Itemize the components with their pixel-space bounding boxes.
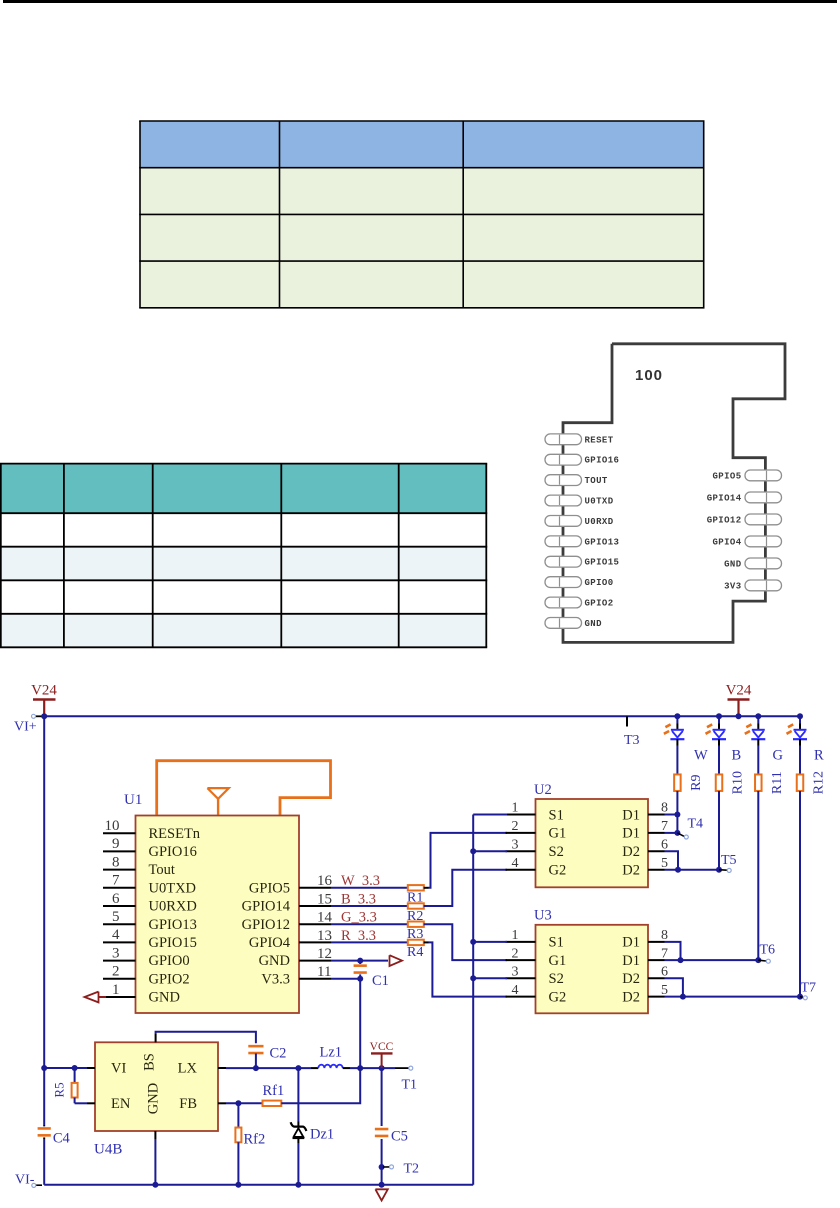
wire R2 to U2 pin4: [424, 870, 507, 906]
node VI+ test point: [35, 715, 42, 717]
wire U3 pin7 to G chain / T6: [665, 959, 759, 961]
svg-text:T4: T4: [688, 817, 704, 832]
wire U1 pin12 to no-connect arrow: [331, 960, 388, 962]
svg-text:5: 5: [661, 856, 668, 871]
svg-text:5: 5: [112, 909, 120, 925]
U3 pin 3 / pin 6: [506, 977, 536, 979]
svg-text:TOUT: TOUT: [585, 476, 608, 486]
U1 pin 10 RESETn: [103, 832, 136, 834]
U3 pin 4 / pin 5: [506, 996, 536, 998]
svg-text:T1: T1: [402, 1078, 418, 1093]
wire R4 to U3 pin4: [424, 941, 429, 943]
svg-text:Tout: Tout: [149, 862, 175, 878]
U2 pin 2 / pin 7: [506, 832, 536, 834]
wire U3 pin3: [473, 977, 507, 979]
svg-text:GPIO0: GPIO0: [149, 953, 190, 969]
wire R10 bottom: [718, 791, 720, 870]
module right pin 3V3: [745, 580, 782, 591]
chip U1 (ESP8266): [136, 816, 300, 1014]
svg-text:GPIO13: GPIO13: [585, 537, 620, 547]
U3 pin 1 / pin 8: [506, 941, 536, 943]
wire LED cathode: [676, 739, 678, 745]
svg-text:VCC: VCC: [370, 1041, 394, 1053]
svg-text:3: 3: [512, 965, 519, 980]
svg-text:U3: U3: [534, 908, 552, 924]
resistor R10: [716, 774, 723, 791]
resistor R5: [74, 1068, 76, 1083]
svg-text:12: 12: [317, 946, 332, 962]
module left pin U0TXD: [545, 495, 582, 506]
svg-text:13: 13: [317, 928, 332, 944]
wire LED chain W: [676, 716, 678, 723]
junction pin12: [357, 958, 363, 964]
wire R9 bottom: [676, 791, 678, 833]
U4B pin EN: [87, 1102, 95, 1104]
svg-text:R9: R9: [689, 775, 704, 791]
svg-text:4: 4: [112, 927, 120, 943]
U1 pin 1 GND power port arrow: [106, 996, 136, 998]
U4B pin LX: [218, 1067, 226, 1069]
U2 pin 4 / pin 5: [506, 869, 536, 871]
svg-text:D2: D2: [622, 971, 640, 987]
svg-text:C1: C1: [372, 973, 389, 989]
svg-text:D2: D2: [622, 863, 640, 879]
svg-text:3: 3: [112, 945, 120, 961]
svg-text:GND: GND: [724, 559, 742, 569]
resistor R4: [408, 940, 424, 945]
svg-text:U1: U1: [124, 792, 142, 808]
svg-text:EN: EN: [111, 1096, 131, 1112]
chip U2 (dual mosfet): [536, 799, 649, 887]
svg-text:S2: S2: [549, 844, 564, 860]
capacitor C4: [43, 1125, 45, 1126]
svg-text:RESET: RESET: [585, 435, 614, 445]
svg-text:2: 2: [512, 819, 519, 834]
svg-text:G_3.3: G_3.3: [341, 910, 377, 926]
svg-text:U0RXD: U0RXD: [585, 517, 614, 527]
junction C2/LX: [253, 1065, 259, 1071]
svg-text:10: 10: [105, 818, 120, 834]
wire FB row: [226, 1102, 263, 1104]
svg-text:GPIO5: GPIO5: [712, 471, 741, 481]
svg-text:D1: D1: [622, 826, 640, 842]
svg-text:GPIO16: GPIO16: [585, 456, 620, 466]
svg-text:T5: T5: [721, 853, 737, 868]
svg-text:T2: T2: [404, 1162, 420, 1177]
wire U2 pin8 to W chain: [665, 814, 678, 816]
page top rule: [3, 0, 837, 3]
wire C1 down to LX node: [359, 979, 361, 1068]
svg-text:2: 2: [512, 946, 519, 961]
svg-text:11: 11: [317, 964, 331, 980]
svg-text:D1: D1: [622, 953, 640, 969]
capacitor C2: [248, 1045, 263, 1048]
U2 pin 1 / pin 8: [506, 814, 536, 816]
wire U3 pin6 to pin5 node: [665, 978, 683, 996]
wire U1 pin11 V3.3: [331, 978, 360, 980]
svg-text:GPIO15: GPIO15: [585, 558, 620, 568]
svg-text:U4B: U4B: [94, 1142, 122, 1158]
wire pin13 to R4: [331, 941, 408, 943]
svg-text:LX: LX: [178, 1061, 198, 1077]
svg-text:GND: GND: [149, 990, 180, 1006]
svg-text:D2: D2: [622, 844, 640, 860]
svg-text:T6: T6: [760, 943, 776, 958]
svg-text:Rf2: Rf2: [244, 1132, 266, 1148]
svg-text:GND: GND: [259, 953, 290, 969]
LED D-B: [713, 729, 726, 731]
svg-text:Rf1: Rf1: [263, 1083, 285, 1099]
svg-text:GND: GND: [146, 1083, 162, 1114]
table 1 (3x3, blue header): [140, 121, 704, 168]
svg-text:1: 1: [512, 801, 519, 816]
svg-text:RESETn: RESETn: [149, 826, 201, 842]
table 2 (5 cols, teal header): [1, 464, 487, 514]
svg-text:C5: C5: [391, 1129, 408, 1145]
svg-text:R: R: [814, 748, 824, 764]
svg-text:6: 6: [112, 891, 120, 907]
wire LED cathode: [718, 739, 720, 745]
svg-text:S1: S1: [549, 935, 564, 951]
svg-text:GPIO13: GPIO13: [149, 917, 197, 933]
svg-text:V24: V24: [31, 683, 57, 699]
LED D-G: [752, 729, 765, 731]
resistor Rf2: [237, 1103, 239, 1127]
svg-text:U0TXD: U0TXD: [149, 880, 197, 896]
U4B pin VI: [87, 1067, 95, 1069]
svg-text:V3.3: V3.3: [261, 971, 290, 987]
U4B pin GND: [154, 1131, 156, 1139]
svg-text:G1: G1: [549, 826, 567, 842]
svg-text:U0RXD: U0RXD: [149, 899, 197, 915]
resistor R12: [797, 774, 804, 791]
svg-text:GPIO2: GPIO2: [149, 971, 190, 987]
svg-text:15: 15: [317, 891, 332, 907]
test point T1: [395, 1067, 409, 1069]
svg-text:R 3.3: R 3.3: [341, 928, 376, 944]
U1 pin 9 GPIO16: [103, 850, 136, 852]
wire U2 pin5 / T5: [665, 869, 720, 871]
svg-text:4: 4: [512, 983, 519, 998]
junction VI+: [41, 713, 47, 719]
svg-text:GND: GND: [585, 619, 603, 629]
junction pin11: [357, 976, 363, 982]
wire U2 pin7 / T4: [665, 832, 678, 834]
svg-text:8: 8: [661, 801, 668, 816]
svg-text:VI-: VI-: [15, 1173, 35, 1188]
U3 pin 2 / pin 7: [506, 959, 536, 961]
wire LED cathode: [757, 739, 759, 745]
wire LX row: [226, 1067, 311, 1069]
ESP module body outline: [563, 344, 785, 643]
svg-text:Dz1: Dz1: [310, 1127, 334, 1143]
svg-text:8: 8: [661, 928, 668, 943]
svg-text:GPIO15: GPIO15: [149, 935, 197, 951]
node VI- test point: [36, 1184, 42, 1186]
no-connect arrow pin12: [390, 955, 403, 966]
LED D-R: [794, 729, 807, 731]
wire LED chain G: [757, 716, 759, 723]
svg-text:5: 5: [661, 983, 668, 998]
svg-text:GPIO14: GPIO14: [707, 493, 742, 503]
U1 antenna loop: [157, 761, 331, 815]
chip U4B (regulator): [95, 1042, 218, 1131]
svg-text:B: B: [732, 748, 742, 764]
svg-text:7: 7: [661, 819, 668, 834]
wire VI row: [44, 1067, 87, 1069]
junction C1 branch: [357, 1065, 363, 1071]
svg-text:T7: T7: [801, 981, 817, 996]
inductor Lz1: [318, 1065, 342, 1068]
module left pin TOUT: [545, 475, 582, 486]
wire U2 pin6 to pin5 node: [665, 851, 679, 869]
svg-text:3: 3: [512, 838, 519, 853]
svg-text:G2: G2: [549, 863, 567, 879]
wire R11 bottom: [757, 791, 759, 960]
svg-text:G1: G1: [549, 953, 567, 969]
wire pin14 to R3: [331, 923, 408, 925]
resistor R2: [408, 903, 424, 908]
wire BS to C2: [156, 1032, 256, 1043]
svg-text:G2: G2: [549, 989, 567, 1005]
junction Dz1 branch: [295, 1065, 301, 1071]
svg-text:1: 1: [112, 982, 120, 998]
U1 pin 2 GPIO2: [103, 978, 136, 980]
U1 pin 7 U0TXD: [103, 887, 136, 889]
U1 pin 8 Tout: [103, 869, 136, 871]
wire LED cathode: [799, 739, 801, 745]
svg-text:T3: T3: [624, 733, 640, 748]
resistor R9: [674, 774, 681, 791]
svg-text:8: 8: [112, 854, 120, 870]
svg-text:7: 7: [661, 946, 668, 961]
svg-text:R4: R4: [407, 945, 423, 960]
svg-text:R12: R12: [812, 771, 827, 794]
svg-text:100: 100: [635, 367, 663, 384]
U1 pin 6 U0RXD: [103, 905, 136, 907]
module right pin GND: [745, 558, 782, 569]
junction VCC: [379, 1065, 385, 1071]
svg-text:R11: R11: [770, 771, 785, 794]
wire LED chain B: [718, 716, 720, 723]
svg-text:D2: D2: [622, 989, 640, 1005]
resistor R11: [755, 774, 762, 791]
wire Rf1 to C1 node: [281, 1068, 360, 1103]
svg-text:GPIO4: GPIO4: [712, 537, 741, 547]
chip U3 (dual mosfet): [536, 925, 649, 1014]
U1 antenna symbol: [217, 798, 219, 814]
junction V24 right: [736, 713, 742, 719]
junction dots bottom rail: [152, 1182, 158, 1188]
module right pin GPIO14: [745, 492, 782, 503]
wire U3 pin5 to R chain / T7: [665, 996, 801, 998]
module left pin GPIO16: [545, 454, 582, 465]
svg-text:Lz1: Lz1: [320, 1045, 343, 1061]
test point T3: [626, 716, 628, 726]
svg-text:6: 6: [661, 965, 668, 980]
wire R3 to U3 pin2: [424, 924, 507, 960]
wire left rail: [43, 716, 45, 1125]
LED D-W: [671, 729, 684, 731]
wire source bus vertical: [472, 815, 474, 1185]
module right pin GPIO5: [745, 470, 782, 481]
ground arrow: [375, 1189, 387, 1200]
wire U2 pin1: [473, 814, 507, 816]
module left pin GPIO15: [545, 556, 582, 567]
resistor R1: [408, 885, 424, 890]
wire pin15 to R2: [331, 905, 408, 907]
wire R1 to U2 pin2: [424, 887, 429, 889]
test point T2: [379, 1164, 385, 1170]
svg-text:GPIO4: GPIO4: [249, 935, 291, 951]
svg-text:U2: U2: [534, 782, 552, 798]
svg-text:7: 7: [112, 873, 120, 889]
capacitor C5: [381, 1068, 383, 1125]
svg-text:4: 4: [512, 856, 519, 871]
wire C5 to rail: [381, 1167, 383, 1185]
svg-text:BS: BS: [142, 1053, 158, 1071]
zener diode Dz1: [297, 1068, 299, 1121]
wire U4B GND to rail: [154, 1139, 156, 1185]
wire U3 pin1: [473, 941, 507, 943]
module left pin GPIO0: [545, 577, 582, 588]
wire U2 pin3: [473, 850, 507, 852]
svg-text:9: 9: [112, 836, 120, 852]
svg-text:W: W: [694, 748, 708, 764]
svg-text:3V3: 3V3: [724, 581, 741, 591]
module left pin GPIO2: [545, 597, 582, 608]
svg-text:C2: C2: [270, 1046, 287, 1062]
U4B pin BS: [155, 1034, 157, 1042]
resistor Rf1: [263, 1101, 282, 1106]
svg-text:GPIO12: GPIO12: [707, 515, 742, 525]
svg-text:14: 14: [317, 910, 333, 926]
svg-text:FB: FB: [179, 1096, 197, 1112]
svg-text:VI: VI: [111, 1061, 126, 1077]
svg-text:16: 16: [317, 873, 333, 889]
resistor R3: [408, 922, 424, 927]
wire LED chain R: [799, 716, 801, 723]
wire EN row: [75, 1102, 87, 1104]
module left pin GPIO13: [545, 536, 582, 547]
svg-text:6: 6: [661, 838, 668, 853]
svg-text:GPIO12: GPIO12: [242, 917, 290, 933]
capacitor C1: [354, 964, 367, 967]
svg-text:GPIO0: GPIO0: [585, 578, 614, 588]
module left pin GND: [545, 618, 582, 629]
U1 pin 5 GPIO13: [103, 923, 136, 925]
svg-text:D1: D1: [622, 935, 640, 951]
wire top rail: [44, 715, 800, 717]
module right pin GPIO12: [745, 514, 782, 525]
module left pin RESET: [545, 434, 582, 445]
module right pin GPIO4: [745, 536, 782, 547]
U4B pin FB: [218, 1102, 226, 1104]
svg-text:U0TXD: U0TXD: [585, 497, 614, 507]
svg-text:GPIO14: GPIO14: [242, 899, 291, 915]
U1 pin 4 GPIO15: [103, 941, 136, 943]
svg-text:GPIO16: GPIO16: [149, 844, 197, 860]
svg-text:V24: V24: [726, 683, 752, 699]
wire U3 pin8 to pin7 node: [665, 942, 681, 960]
wire after Lz1: [343, 1067, 350, 1069]
svg-text:2: 2: [112, 964, 120, 980]
svg-text:S2: S2: [549, 971, 564, 987]
U2 pin 3 / pin 6: [506, 850, 536, 852]
svg-text:1: 1: [512, 928, 519, 943]
svg-text:G: G: [773, 748, 784, 764]
svg-text:R5: R5: [52, 1082, 67, 1097]
svg-text:C4: C4: [53, 1131, 71, 1147]
svg-text:GPIO2: GPIO2: [585, 599, 614, 609]
svg-text:GPIO5: GPIO5: [249, 880, 290, 896]
U1 pin 3 GPIO0: [103, 960, 136, 962]
svg-text:VI+: VI+: [14, 720, 37, 735]
wire pin16 to R1: [331, 887, 408, 889]
module left pin U0RXD: [545, 516, 582, 527]
svg-text:D1: D1: [622, 807, 640, 823]
wire R12 bottom: [799, 791, 801, 997]
svg-text:S1: S1: [549, 807, 564, 823]
svg-text:R10: R10: [731, 771, 746, 794]
wire bottom rail: [44, 1184, 473, 1186]
